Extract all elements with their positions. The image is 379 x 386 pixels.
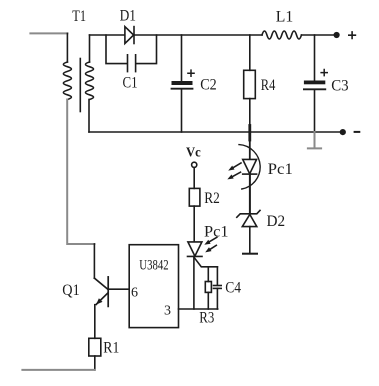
wire Vc to R2	[193, 168, 195, 189]
wire C3 top lead	[314, 35, 316, 81]
resistor R2	[189, 188, 200, 206]
wire primary top lead	[66, 33, 68, 62]
ground stub under C3 (gray)	[308, 132, 321, 148]
inductor L1	[262, 31, 301, 39]
transistor Q1 collector diagonal	[94, 278, 108, 289]
resistor R1	[89, 338, 101, 356]
diode D1	[125, 27, 134, 44]
wire R4 bottom lead	[249, 99, 251, 132]
svg-text:R3: R3	[199, 309, 214, 326]
LED Pc1 (emitter side)	[243, 159, 257, 174]
LED Pc1 light arrow 1	[228, 163, 241, 171]
transistor Q1 base bar	[107, 277, 109, 307]
svg-text:R1: R1	[103, 340, 119, 357]
svg-text:Pc1: Pc1	[268, 161, 293, 178]
wire D2 anode lead	[249, 227, 251, 254]
svg-text:D2: D2	[267, 213, 286, 230]
transformer T1 secondary winding	[86, 62, 94, 100]
svg-text:C1: C1	[123, 75, 138, 92]
LED Pc1 light arrow 4	[205, 245, 216, 252]
wire top rail right	[302, 34, 337, 36]
wire C2 top lead	[181, 35, 183, 81]
svg-text:Vc: Vc	[186, 145, 201, 160]
svg-text:T1: T1	[72, 8, 86, 25]
ground bar under D2	[243, 253, 257, 255]
wire C3 bottom lead	[314, 90, 316, 132]
zener diode D2	[237, 210, 260, 226]
wire bottom rail	[89, 131, 343, 133]
node output plus	[334, 32, 340, 38]
svg-text:L1: L1	[276, 8, 294, 25]
svg-text:C4: C4	[225, 280, 241, 297]
wire AC input top (gray)	[30, 32, 67, 34]
wire diagonal to RC top bar	[194, 258, 217, 267]
wire LED cathode down branch	[193, 256, 195, 309]
wire pin 6 to Q1 base	[109, 288, 129, 290]
label plus output	[348, 31, 356, 39]
svg-text:R2: R2	[204, 190, 220, 207]
transistor Q1 emitter arrowhead	[96, 298, 103, 304]
LED Pc1 light arrow 2	[227, 172, 240, 179]
svg-text:3: 3	[164, 303, 171, 318]
node Vc terminal	[192, 162, 197, 167]
transformer T1 core	[79, 59, 81, 112]
capacitor C3	[304, 81, 325, 90]
svg-text:R4: R4	[261, 77, 276, 94]
wire RC bottom bar to pin 3	[179, 308, 218, 310]
wire R3 bottom lead	[207, 292, 209, 309]
transistor Q1 collector lead	[93, 244, 95, 278]
label plus C3	[320, 69, 328, 77]
transformer T1 primary winding	[63, 62, 71, 100]
svg-text:C3: C3	[331, 77, 348, 94]
wire C1 branch	[106, 35, 157, 64]
wire C4 bottom lead	[216, 288, 218, 309]
capacitor C4	[214, 286, 222, 289]
wire R3 top lead	[207, 267, 209, 282]
svg-text:Pc1: Pc1	[204, 223, 229, 240]
wire R2 to Pc1 LED	[193, 206, 195, 242]
LED Pc1 (receiver side)	[188, 242, 203, 257]
node output minus	[340, 129, 346, 135]
svg-text:D1: D1	[120, 7, 136, 24]
wire C2 bottom lead	[181, 90, 183, 132]
wire top rail left	[90, 34, 263, 36]
transistor Q1 emitter diagonal	[96, 293, 108, 305]
svg-text:6: 6	[131, 285, 138, 300]
wire secondary top lead	[89, 35, 91, 62]
wire emitter to R1	[94, 305, 96, 339]
resistor R3	[205, 282, 211, 293]
IC U3842	[129, 245, 178, 328]
capacitor C2	[172, 81, 193, 89]
capacitor C1	[128, 55, 136, 72]
svg-text:C2: C2	[200, 76, 217, 93]
wire R4 top lead	[249, 35, 251, 70]
wire R1 bottom lead	[94, 356, 96, 370]
svg-text:Q1: Q1	[62, 282, 79, 299]
label minus output	[354, 131, 361, 133]
wire secondary bottom lead	[88, 100, 90, 133]
svg-text:U3842: U3842	[139, 257, 168, 273]
wire AC input bottom (gray)	[22, 369, 94, 371]
optocoupler envelope arc Pc1	[239, 145, 260, 189]
wire primary bottom lead (gray)	[67, 100, 94, 245]
wire C4 top lead	[216, 267, 218, 286]
wire optocoupler branch from node (junction)	[248, 126, 251, 141]
label plus C2	[187, 69, 195, 77]
LED Pc1 light arrow 3	[204, 237, 217, 245]
resistor R4	[244, 70, 256, 98]
wire Pc1 cathode to D2	[249, 174, 251, 214]
